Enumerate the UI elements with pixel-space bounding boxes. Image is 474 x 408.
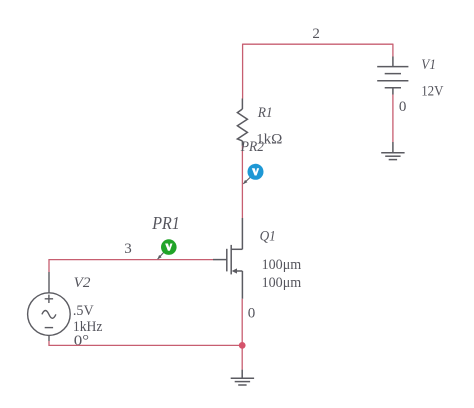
probe PR1 (green voltage probe): [161, 239, 177, 255]
junction (net 0): [239, 342, 246, 349]
Q1 source arrowhead: [232, 268, 237, 273]
svg-text:3: 3: [124, 241, 132, 257]
svg-text:Q1: Q1: [260, 228, 276, 244]
resistor R1: [237, 99, 247, 146]
svg-text:0: 0: [399, 99, 407, 115]
svg-text:PR2: PR2: [240, 139, 265, 155]
ground (bottom): [231, 370, 254, 385]
wire: net 3 vertical at V2: [48, 259, 50, 272]
wire: top net 2 horizontal: [243, 43, 393, 45]
svg-text:R1: R1: [257, 105, 273, 121]
probe PR2 pointer: [243, 177, 250, 184]
svg-text:100μm: 100μm: [262, 257, 302, 273]
ground (under V1): [381, 142, 404, 160]
svg-text:V1: V1: [421, 57, 436, 73]
probe PR2 (blue voltage probe): [248, 164, 264, 180]
svg-text:0°: 0°: [74, 333, 89, 349]
wire: gate net 3: [49, 259, 213, 261]
source V2 (AC): [28, 272, 71, 341]
svg-text:V2: V2: [74, 275, 91, 291]
wire: R1 bottom to Q1 drain: [241, 146, 243, 218]
svg-text:2: 2: [312, 26, 320, 42]
wire: V2 bottom corner: [49, 341, 242, 345]
wire: net 2 vertical drop to V1: [392, 44, 394, 57]
svg-text:100μm: 100μm: [262, 275, 302, 291]
battery V1: [377, 57, 408, 95]
wire: Q1 source down to ground net 0: [241, 299, 243, 370]
svg-text:0: 0: [248, 306, 256, 322]
svg-text:PR1: PR1: [151, 213, 179, 233]
probe PR1 pointer: [158, 253, 164, 260]
wire: net 2 vertical drop to R1: [242, 44, 244, 99]
transistor Q1 (NMOS): [213, 218, 242, 299]
wire: V1 minus to ground (net 0): [392, 95, 394, 143]
svg-text:12V: 12V: [421, 84, 443, 100]
svg-text:.5V: .5V: [73, 303, 94, 319]
